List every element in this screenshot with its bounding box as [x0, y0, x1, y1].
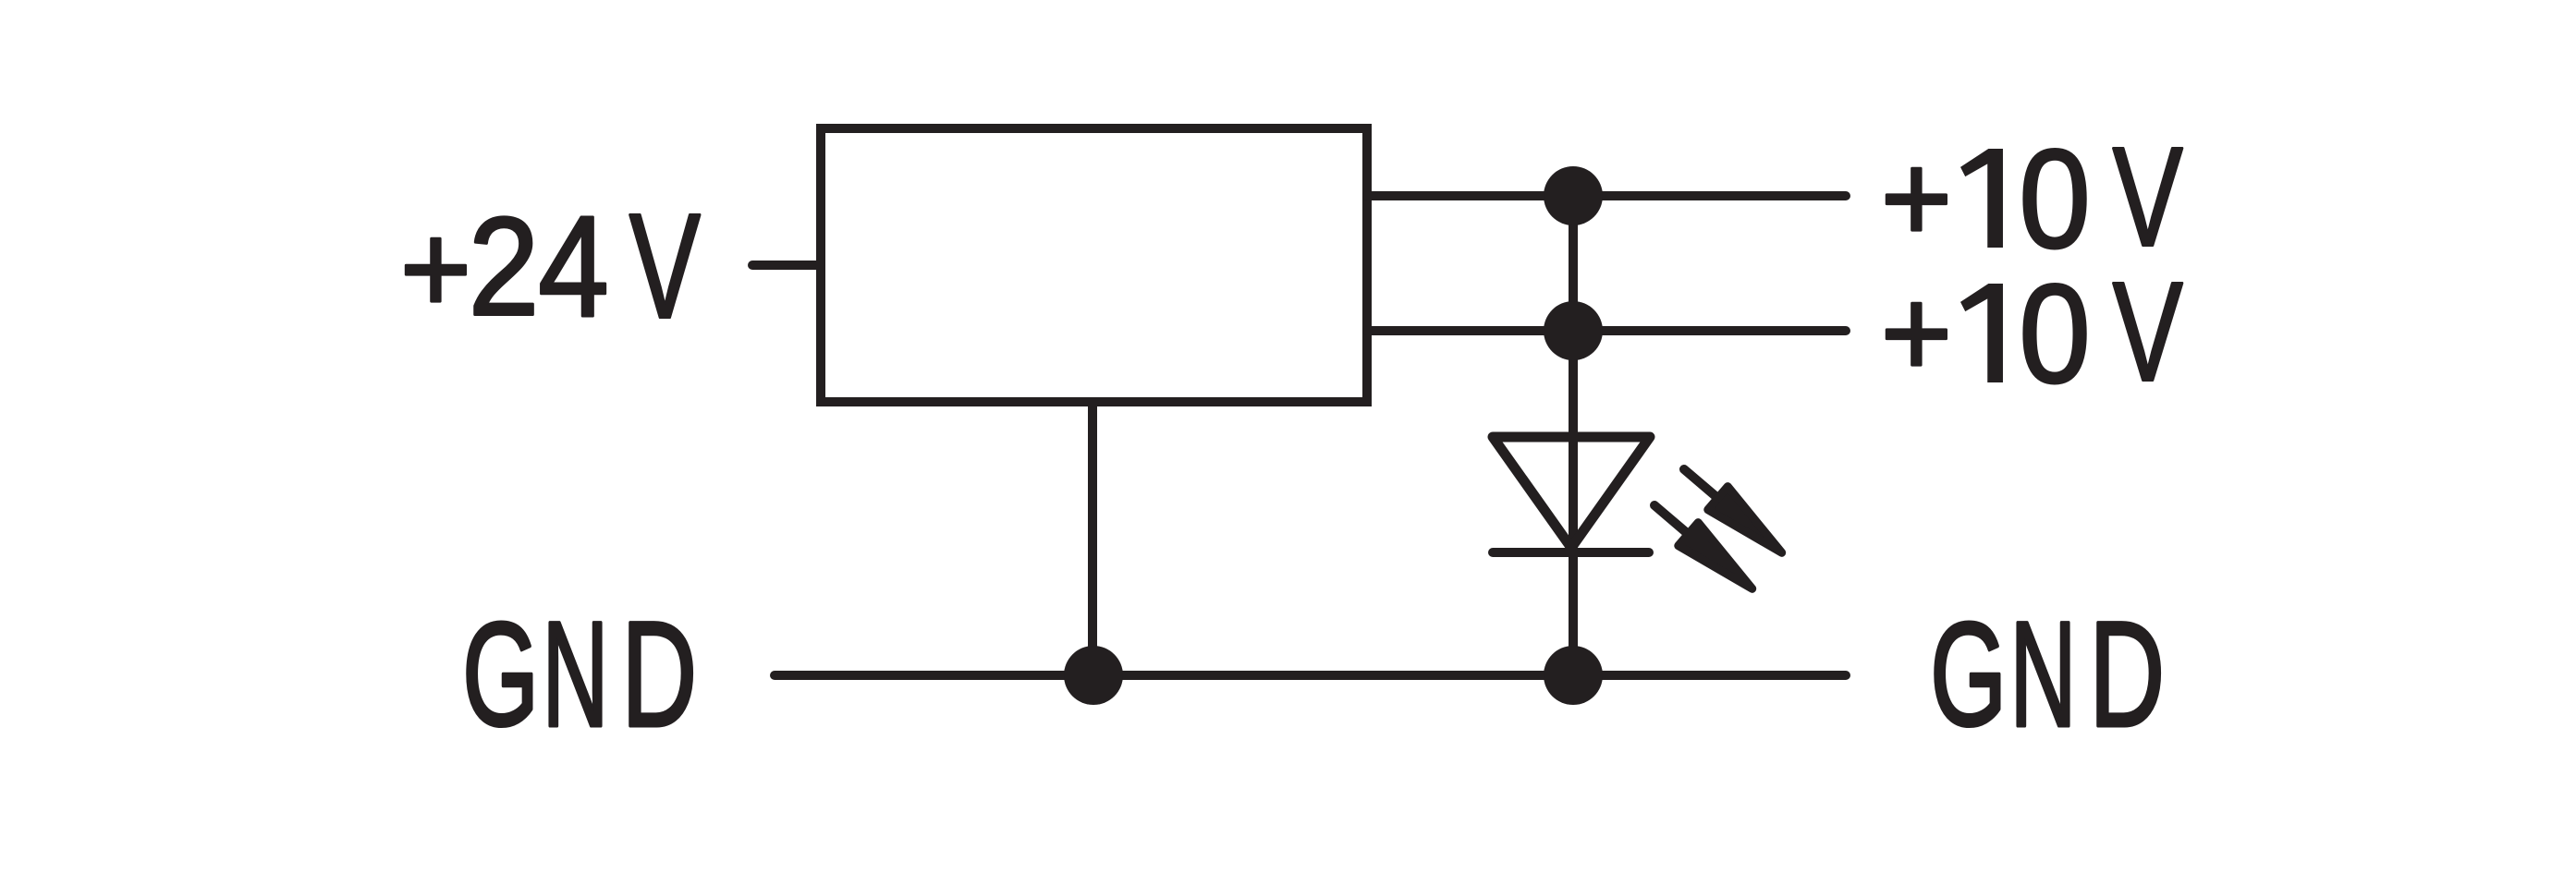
svg-text:4: 4 — [538, 187, 609, 347]
wire box ground vertical — [1088, 397, 1097, 675]
LED D1 anode triangle — [1493, 437, 1650, 548]
junction dot output 2 — [1544, 301, 1603, 360]
svg-text:N: N — [2010, 591, 2077, 758]
label +10 V upper — [1881, 117, 2183, 277]
label GND right — [1930, 590, 2165, 758]
svg-text:N: N — [543, 591, 609, 758]
junction dot LED ground — [1544, 646, 1603, 705]
svg-text:+: + — [400, 197, 471, 340]
junction dot output 1 — [1544, 166, 1603, 225]
wire GND bus — [775, 671, 1846, 680]
svg-text:0: 0 — [2019, 255, 2090, 412]
svg-text:2: 2 — [469, 188, 540, 345]
svg-text:+: + — [1881, 261, 1952, 403]
svg-text:D: D — [621, 590, 697, 758]
label +24 V — [400, 183, 701, 349]
converter box U1 — [821, 128, 1367, 402]
svg-text:G: G — [1930, 591, 2007, 757]
LED light arrow 1 — [1674, 457, 1791, 564]
svg-text:V: V — [2113, 252, 2183, 410]
svg-text:0: 0 — [2019, 120, 2090, 277]
svg-text:V: V — [629, 183, 701, 349]
label GND left — [462, 590, 697, 758]
wire LED branch vertical — [1569, 196, 1578, 675]
junction dot box ground — [1064, 646, 1123, 705]
svg-text:+: + — [1881, 127, 1952, 268]
LED light arrow 2 — [1644, 493, 1762, 600]
label +10 V lower — [1881, 252, 2183, 412]
LED D1 cathode bar — [1493, 548, 1649, 557]
svg-text:G: G — [462, 591, 539, 757]
svg-text:D: D — [2089, 590, 2165, 758]
wire +10V output 1 — [1367, 191, 1846, 200]
wire +10V output 2 — [1367, 326, 1846, 335]
wire +24V lead — [752, 261, 817, 270]
